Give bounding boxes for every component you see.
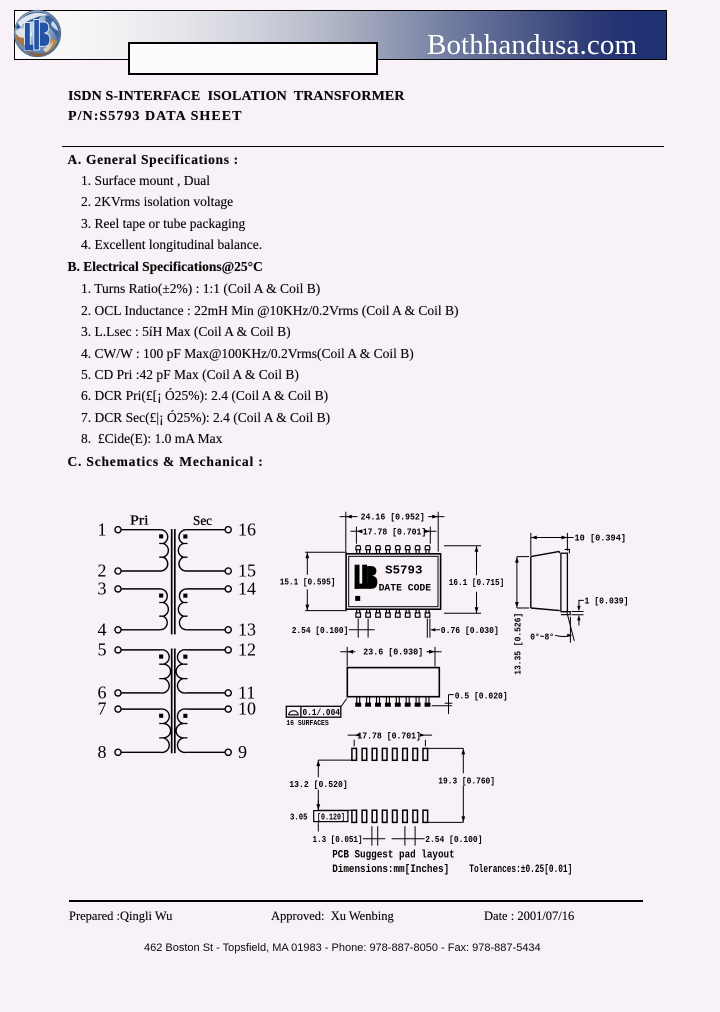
svg-text:1 [0.039]: 1 [0.039] bbox=[585, 596, 629, 607]
pcb pad 6 (bottom row) bbox=[403, 810, 408, 822]
svg-text:13: 13 bbox=[238, 619, 256, 639]
pcb pad 9 (top row) bbox=[423, 748, 428, 760]
svg-text:16 SURFACES: 16 SURFACES bbox=[286, 720, 329, 728]
svg-text:DATE CODE: DATE CODE bbox=[379, 582, 432, 593]
svg-text:15.1 [0.595]: 15.1 [0.595] bbox=[280, 576, 336, 587]
wire pin 13 to secondary coil bbox=[186, 629, 225, 631]
dimension 10 [0.394] body depth bbox=[531, 533, 574, 556]
svg-text:0.1/.004: 0.1/.004 bbox=[303, 707, 341, 718]
front view: pin 5 bbox=[395, 697, 400, 707]
pcb pad 16 (top row) bbox=[352, 748, 357, 760]
svg-text:13.35 [0.526]: 13.35 [0.526] bbox=[513, 613, 524, 675]
pin 5 terminal bbox=[98, 640, 122, 660]
top view: pin 14 (top row) bbox=[376, 546, 381, 554]
svg-text:3.05: 3.05 bbox=[290, 812, 308, 823]
footer names bbox=[69, 910, 172, 923]
side view: lead strip bbox=[561, 553, 568, 611]
wire pin 9 to secondary coil bbox=[186, 751, 225, 753]
wire pin 12 to secondary coil bbox=[186, 649, 225, 651]
flatness feature control frame 0.1/.004 bbox=[286, 706, 341, 717]
transformer T2 primary polarity dot bbox=[159, 594, 163, 598]
transformer T3 secondary polarity dot bbox=[183, 655, 187, 659]
svg-text:16.1 [0.715]: 16.1 [0.715] bbox=[449, 577, 504, 588]
section B bbox=[68, 259, 263, 274]
dimension 17.78 [0.701] pad span bbox=[348, 733, 433, 746]
pin 11 terminal bbox=[225, 683, 255, 703]
svg-text:17.78 [0.701]: 17.78 [0.701] bbox=[357, 730, 421, 741]
wire pin 3 to primary coil bbox=[121, 588, 160, 590]
dimension 13.2 [0.520] inner row gap bbox=[316, 760, 351, 810]
pcb pad 15 (top row) bbox=[362, 748, 367, 760]
front view: pin 4 bbox=[386, 697, 391, 707]
transformer T4 primary polarity dot bbox=[159, 714, 163, 718]
top view: pin 2 (bottom row) bbox=[366, 609, 371, 617]
wire pin 11 to secondary coil bbox=[186, 692, 225, 694]
dimension 23.6 [0.930] body width bbox=[340, 647, 441, 667]
dimension 0.5 [0.020] standoff bbox=[445, 695, 454, 714]
side view: lead top hook bbox=[559, 549, 569, 553]
svg-text:8: 8 bbox=[98, 742, 107, 762]
wire pin 2 to primary coil bbox=[121, 570, 160, 572]
dimension 2.54 [0.100] pad pitch bbox=[392, 826, 425, 845]
svg-text:Dimensions:mm[Inches]: Dimensions:mm[Inches] bbox=[332, 864, 449, 876]
pin 10 terminal bbox=[225, 699, 256, 719]
top view: pin 6 (bottom row) bbox=[405, 609, 410, 617]
wire pin 10 to secondary coil bbox=[186, 708, 225, 710]
wire pin 4 to primary coil bbox=[121, 629, 160, 631]
transformer T1 secondary polarity dot bbox=[183, 534, 187, 538]
transformer T1 secondary coil bbox=[178, 530, 186, 571]
transformer T2 secondary coil bbox=[178, 589, 186, 630]
pin 13 terminal bbox=[225, 619, 256, 639]
header banner bbox=[14, 10, 667, 60]
svg-text:PCB Suggest pad layout: PCB Suggest pad layout bbox=[332, 849, 455, 861]
flatness callout leader bbox=[341, 699, 347, 707]
rule under title bbox=[62, 146, 664, 148]
LB monogram bbox=[25, 20, 51, 51]
transformer T4 secondary coil bbox=[176, 709, 186, 753]
pin 12 terminal bbox=[225, 640, 256, 660]
svg-text:Tolerances:±0.25[0.01]: Tolerances:±0.25[0.01] bbox=[469, 864, 572, 876]
dimension 1.3 [0.051] pad width bbox=[363, 826, 385, 845]
wire pin 6 to primary coil bbox=[121, 692, 160, 694]
pin 6 terminal bbox=[98, 683, 122, 703]
pin 1 terminal bbox=[98, 519, 122, 539]
top view: pin 4 (bottom row) bbox=[386, 609, 391, 617]
top view: package body inner line bbox=[349, 556, 438, 606]
svg-text:9: 9 bbox=[238, 742, 247, 762]
svg-text:[0.120]: [0.120] bbox=[317, 812, 345, 823]
svg-text:17.78 [0.701]: 17.78 [0.701] bbox=[363, 526, 427, 537]
svg-text:4: 4 bbox=[98, 619, 107, 639]
core of transformers T1/T2 bbox=[172, 529, 175, 634]
pin 4 terminal bbox=[98, 619, 122, 639]
top view: pin 15 (top row) bbox=[366, 546, 371, 554]
top view: pin 7 (bottom row) bbox=[415, 609, 420, 617]
pcb pad 1 (bottom row) bbox=[352, 810, 357, 822]
transformer T3 primary coil bbox=[160, 650, 170, 693]
front view: pin 7 bbox=[415, 697, 420, 707]
transformer T1 primary polarity dot bbox=[159, 534, 163, 538]
section C bbox=[68, 454, 264, 469]
dimension 24.16 [0.952] overall width bbox=[340, 512, 445, 552]
wire pin 5 to primary coil bbox=[121, 649, 160, 651]
side view: body profile bbox=[531, 551, 560, 610]
top view: pin 8 (bottom row) bbox=[425, 609, 430, 617]
transformer T4 primary coil bbox=[160, 709, 170, 753]
svg-text:2.54 [0.100]: 2.54 [0.100] bbox=[425, 834, 482, 845]
pcb pad 5 (bottom row) bbox=[393, 810, 398, 822]
top view: pin 12 (top row) bbox=[396, 546, 401, 554]
dimension 17.78 [0.701] pin span bbox=[351, 527, 437, 544]
svg-text:1.3 [0.051]: 1.3 [0.051] bbox=[313, 834, 363, 845]
top view: pin 10 (top row) bbox=[415, 546, 420, 554]
transformer T1 primary coil bbox=[160, 530, 168, 571]
front view: pin 2 bbox=[366, 697, 371, 707]
pin 7 terminal bbox=[98, 699, 122, 719]
front view: seating plane line bbox=[432, 705, 452, 707]
dimension 0.76 [0.030] pin width bbox=[427, 619, 440, 638]
logo globe bbox=[13, 9, 62, 58]
svg-text:S5793: S5793 bbox=[385, 565, 422, 578]
pin 8 terminal bbox=[98, 742, 122, 762]
dimension 16.1 [0.715] body height bbox=[444, 546, 481, 613]
svg-text:10: 10 bbox=[238, 699, 256, 719]
svg-text:19.3 [0.760]: 19.3 [0.760] bbox=[438, 775, 495, 786]
wire pin 15 to secondary coil bbox=[186, 570, 225, 572]
pcb pad 4 (bottom row) bbox=[382, 810, 387, 822]
wire pin 7 to primary coil bbox=[121, 708, 160, 710]
pcb pad 2 (bottom row) bbox=[362, 810, 367, 822]
pin 14 terminal bbox=[225, 579, 256, 599]
svg-text:2.54 [0.100]: 2.54 [0.100] bbox=[292, 625, 349, 636]
pcb pad 8 (bottom row) bbox=[423, 810, 428, 822]
dimension 19.3 [0.760] outer row span bbox=[428, 748, 466, 822]
front view: pin 6 bbox=[405, 697, 410, 707]
svg-text:0°~8°: 0°~8° bbox=[530, 632, 554, 642]
dimension 1 [0.039] lead thickness bbox=[572, 600, 584, 625]
front view: package body bbox=[347, 668, 439, 697]
top view: package body outline bbox=[346, 554, 441, 609]
pcb pad 7 (bottom row) bbox=[413, 810, 418, 822]
transformer T3 primary polarity dot bbox=[159, 655, 163, 659]
top view: LB logo mark bbox=[355, 565, 378, 589]
pcb pad 14 (top row) bbox=[372, 748, 377, 760]
svg-text:7: 7 bbox=[98, 699, 107, 719]
pin 2 terminal bbox=[98, 561, 122, 581]
svg-text:0.76 [0.030]: 0.76 [0.030] bbox=[441, 625, 499, 636]
dimension 0~8 degree lead angle bbox=[555, 612, 574, 642]
top view: pin 9 (top row) bbox=[425, 546, 430, 554]
top view: pin 1 (bottom row) bbox=[356, 609, 361, 617]
pcb pad 10 (top row) bbox=[413, 748, 418, 760]
footer address bbox=[144, 942, 541, 955]
svg-text:10 [0.394]: 10 [0.394] bbox=[575, 532, 627, 543]
core of transformers T3/T4 bbox=[172, 649, 175, 754]
top view: pin 11 (top row) bbox=[405, 546, 410, 554]
basic dimension frame [0.120] bbox=[314, 811, 348, 822]
top view: pin 1 index dot bbox=[355, 596, 360, 601]
front view: pin 1 bbox=[356, 697, 361, 707]
banner title text bbox=[427, 31, 643, 60]
wire pin 14 to secondary coil bbox=[186, 588, 225, 590]
footer rule bbox=[69, 900, 643, 902]
title bbox=[68, 90, 405, 104]
top view: pin 3 (bottom row) bbox=[376, 609, 381, 617]
transformer T2 secondary polarity dot bbox=[183, 594, 187, 598]
wire pin 1 to primary coil bbox=[121, 529, 160, 531]
label Pri bbox=[130, 513, 149, 528]
transformer T4 secondary polarity dot bbox=[183, 714, 187, 718]
section A bbox=[68, 152, 239, 167]
label Sec bbox=[193, 513, 212, 528]
pin 16 terminal bbox=[225, 519, 256, 539]
white overlap box bbox=[128, 42, 378, 75]
pin 3 terminal bbox=[98, 579, 122, 599]
top view: pin 13 (top row) bbox=[386, 546, 391, 554]
dimension 15.1 [0.595] body height left bbox=[305, 552, 347, 610]
dimension 2.54 [0.100] pin pitch bbox=[349, 619, 375, 638]
pcb pad 13 (top row) bbox=[382, 748, 387, 760]
pin 9 terminal bbox=[225, 742, 247, 762]
svg-text:Sec: Sec bbox=[193, 513, 212, 528]
svg-text:Pri: Pri bbox=[130, 513, 149, 528]
dimension 3.05 [0.120] pad length bbox=[317, 800, 319, 832]
pcb pad 11 (top row) bbox=[403, 748, 408, 760]
front view: pin 3 bbox=[376, 697, 381, 707]
svg-text:16: 16 bbox=[238, 519, 256, 539]
svg-text:1: 1 bbox=[98, 519, 107, 539]
side view: lead foot bbox=[561, 612, 570, 615]
pcb pad 3 (bottom row) bbox=[372, 810, 377, 822]
svg-text:14: 14 bbox=[238, 579, 256, 599]
transformer T2 primary coil bbox=[160, 589, 168, 630]
top view: pin 16 (top row) bbox=[356, 546, 361, 554]
svg-text:0.5 [0.020]: 0.5 [0.020] bbox=[455, 690, 508, 701]
svg-text:13.2 [0.520]: 13.2 [0.520] bbox=[289, 779, 347, 790]
svg-text:12: 12 bbox=[238, 640, 256, 660]
front view: pin 8 bbox=[425, 697, 430, 707]
top view: pin 5 (bottom row) bbox=[396, 609, 401, 617]
svg-text:5: 5 bbox=[98, 640, 107, 660]
wire pin 16 to secondary coil bbox=[186, 529, 225, 531]
pcb pad 12 (top row) bbox=[393, 748, 398, 760]
transformer T3 secondary coil bbox=[176, 650, 186, 693]
pin 15 terminal bbox=[225, 561, 256, 581]
dimension 13.35 [0.526] body height bbox=[515, 557, 529, 608]
svg-text:23.6 [0.930]: 23.6 [0.930] bbox=[363, 647, 423, 658]
wire pin 8 to primary coil bbox=[121, 751, 160, 753]
svg-text:24.16 [0.952]: 24.16 [0.952] bbox=[361, 512, 425, 523]
svg-text:3: 3 bbox=[98, 579, 107, 599]
